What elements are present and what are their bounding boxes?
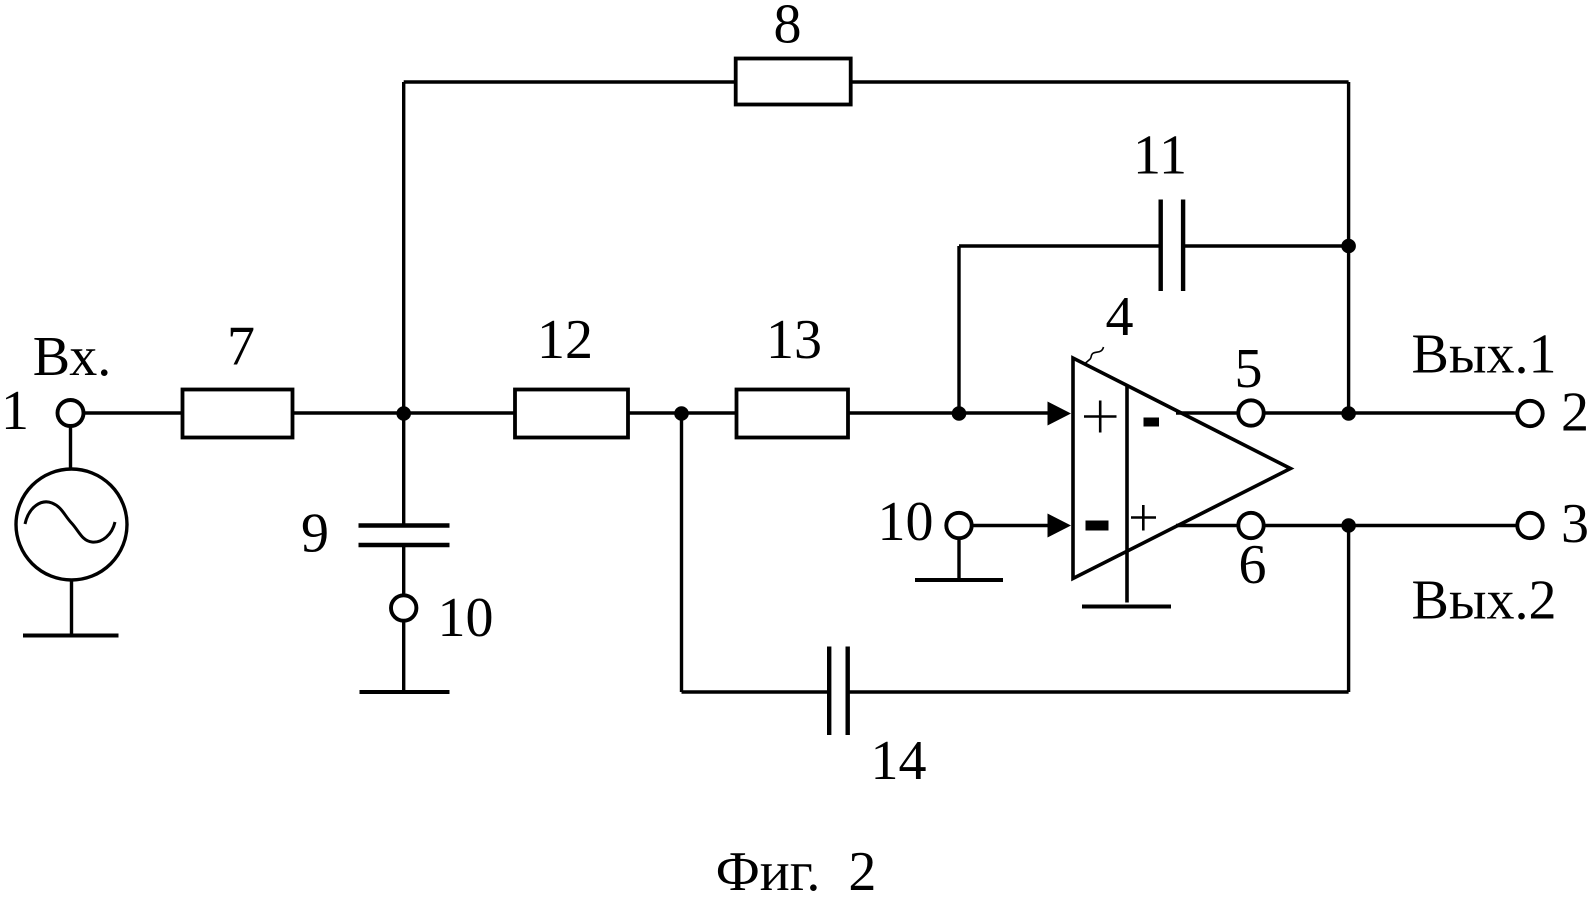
capacitor 14 — [827, 647, 831, 736]
wire node C up — [957, 246, 960, 413]
arrowhead lower input — [1048, 514, 1072, 538]
resistor 7 — [183, 390, 293, 438]
wire terminal to arrowhead — [972, 524, 1051, 527]
op-amp ground — [1082, 605, 1171, 609]
wire node A up — [402, 82, 405, 413]
ground (10b) — [915, 578, 1003, 582]
wire R13 to op-amp — [848, 411, 1050, 414]
node C — [952, 406, 967, 421]
arrowhead upper input — [1048, 402, 1072, 426]
svg-text:5: 5 — [1235, 338, 1263, 400]
ground (source) — [23, 634, 119, 638]
wire C11 to right vertical — [1183, 244, 1349, 247]
node D — [1341, 239, 1356, 254]
ground (10) — [360, 690, 450, 694]
svg-text:6: 6 — [1239, 534, 1267, 596]
capacitor 9 — [359, 523, 450, 527]
resistor 8 — [736, 59, 851, 105]
terminal 1 — [58, 400, 84, 426]
wire R12 to R13 — [628, 411, 737, 414]
svg-text:2: 2 — [1561, 382, 1589, 444]
resistor 12 — [515, 390, 628, 438]
op-amp plus lower — [1131, 505, 1156, 531]
op-amp U4 triangle — [1073, 358, 1291, 579]
wire op-amp out 6 — [1176, 524, 1239, 527]
svg-text:8: 8 — [774, 0, 802, 56]
wire node B down — [680, 413, 683, 692]
wire 5 to 2 — [1264, 411, 1518, 414]
op-amp internal divider — [1125, 386, 1129, 603]
svg-text:11: 11 — [1133, 125, 1187, 187]
node F — [1341, 518, 1356, 533]
svg-text:3: 3 — [1561, 493, 1589, 555]
svg-text:7: 7 — [227, 316, 255, 378]
svg-text:1: 1 — [1, 380, 29, 442]
leader squiggle 4 — [1085, 347, 1104, 364]
node E — [1341, 406, 1356, 421]
wire terminal1 to R7 — [84, 411, 184, 414]
svg-text:4: 4 — [1106, 286, 1134, 348]
svg-text:13: 13 — [766, 309, 822, 371]
terminal 5 — [1238, 400, 1263, 425]
resistor 13 — [737, 390, 849, 438]
wire terminal 10 to ground — [402, 621, 405, 693]
wire R7 to R12 — [293, 411, 516, 414]
terminal 10 op-amp — [946, 513, 971, 538]
op-amp minus upper — [1144, 418, 1160, 427]
wire bottom left — [682, 690, 830, 693]
op-amp minus lower — [1086, 521, 1109, 531]
svg-text:Вых.1: Вых.1 — [1412, 324, 1557, 386]
svg-text:12: 12 — [537, 309, 593, 371]
svg-text:14: 14 — [871, 730, 927, 792]
wire bottom right — [848, 690, 1349, 693]
capacitor 11 — [1158, 200, 1162, 292]
wire op-amp out 5 — [1176, 411, 1239, 414]
wire source to ground — [70, 580, 73, 636]
wire to C11 — [959, 244, 1161, 247]
wire C9 to terminal 10 — [402, 545, 405, 596]
svg-text:10: 10 — [878, 491, 934, 553]
svg-text:9: 9 — [301, 503, 329, 565]
svg-text:10: 10 — [438, 587, 494, 649]
wire top left — [404, 80, 736, 83]
terminal 10 — [391, 595, 416, 620]
AC source — [16, 469, 127, 580]
wire 6 to 3 — [1264, 524, 1518, 527]
wire terminal 10b down — [957, 538, 960, 580]
op-amp plus upper — [1084, 401, 1117, 433]
wire top right — [851, 80, 1349, 83]
node A — [396, 406, 411, 421]
wire right vertical — [1347, 82, 1350, 413]
wire node F down — [1347, 526, 1350, 693]
terminal 3 — [1517, 513, 1542, 538]
wire terminal1 to source — [69, 426, 72, 471]
svg-text:Вых.2: Вых.2 — [1412, 570, 1557, 632]
node B — [674, 406, 689, 421]
terminal 6 — [1238, 513, 1263, 538]
svg-text:Вх.: Вх. — [33, 326, 112, 388]
wire node A down — [402, 413, 405, 526]
svg-text:Фиг. 2: Фиг. 2 — [716, 841, 877, 903]
terminal 2 — [1517, 401, 1542, 426]
